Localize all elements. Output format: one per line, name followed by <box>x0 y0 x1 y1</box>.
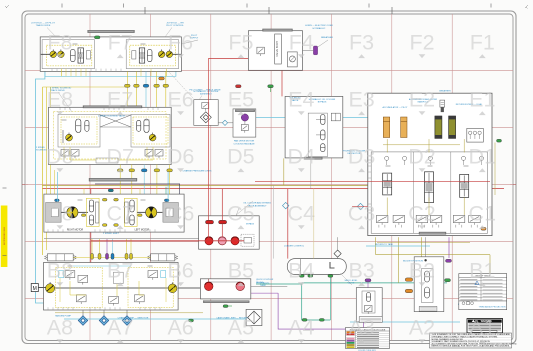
svg-text:HYDRAULIC: HYDRAULIC <box>313 27 326 30</box>
svg-text:A6: A6 <box>167 316 193 340</box>
spool left <box>78 48 83 63</box>
control spool section <box>425 172 434 203</box>
cartridge 1 <box>321 115 325 125</box>
right gearbox <box>46 203 62 223</box>
return hose red horizontal <box>42 188 504 190</box>
svg-text:CHARGE PRESSURE LINES: CHARGE PRESSURE LINES <box>183 170 212 173</box>
port ticks travel block <box>59 107 61 110</box>
filter element 1 <box>435 116 442 138</box>
fold marks <box>5 5 9 8</box>
svg-text:C1: C1 <box>469 202 496 226</box>
pilot red wire horizontal <box>209 57 283 59</box>
suction strainers <box>82 310 84 317</box>
svg-text:C4: C4 <box>288 202 316 226</box>
svg-text:LEFT MOTOR: LEFT MOTOR <box>135 229 150 231</box>
svg-text:D8: D8 <box>46 145 74 169</box>
svg-text:THIRD ANGLE PROJECTION: THIRD ANGLE PROJECTION <box>479 306 506 309</box>
rotated tag bar <box>275 34 282 64</box>
svg-text:E3: E3 <box>348 88 374 112</box>
svg-text:A1: A1 <box>469 316 495 340</box>
left control spool (top) <box>47 254 73 261</box>
M electric motor box <box>31 284 38 292</box>
pilot pump PR2 <box>166 51 173 58</box>
svg-text:C5: C5 <box>227 202 255 226</box>
svg-text:E4: E4 <box>288 88 314 112</box>
right side drain <box>494 143 496 196</box>
pilot pump PL1 <box>50 51 57 58</box>
main pump P2 <box>168 284 177 293</box>
gear pump 1 <box>204 282 213 291</box>
gerotor pump purple <box>241 114 248 121</box>
pilot pressure red riser (over blocks) <box>208 58 210 240</box>
cooler supply pills (over wires) <box>206 220 214 223</box>
control spool section <box>383 173 392 195</box>
svg-text:D2: D2 <box>408 145 435 169</box>
green pills A4 <box>302 319 307 322</box>
port ticks pump block <box>47 307 49 310</box>
svg-text:D5: D5 <box>227 145 255 169</box>
svg-text:E6: E6 <box>167 88 193 112</box>
svg-text:B2: B2 <box>409 259 435 283</box>
interior pilot lines <box>70 147 96 160</box>
cartridge 2 <box>321 130 325 140</box>
svg-text:C7: C7 <box>106 202 133 226</box>
green port pill <box>268 85 274 88</box>
svg-text:F7: F7 <box>108 31 133 55</box>
svg-text:B1: B1 <box>469 259 495 283</box>
cyan case drain to manifold <box>250 117 368 119</box>
svg-text:D1: D1 <box>469 145 496 169</box>
short stubs under F-block <box>65 69 67 77</box>
revision flag strip <box>1 206 8 268</box>
hose color legend <box>346 328 390 349</box>
left margin cyan wire <box>36 71 65 303</box>
radiator fan motor 2 <box>218 237 226 245</box>
pilot pump PL2 <box>58 51 65 58</box>
orange port pill <box>159 77 165 80</box>
right joystick section <box>126 40 178 69</box>
svg-text:F6: F6 <box>168 31 193 55</box>
tandem pump block <box>44 263 179 311</box>
left motor cylinder group <box>124 198 137 226</box>
purple muffler <box>313 46 317 55</box>
cyan drops into motors <box>56 172 58 202</box>
port ticks C-block <box>47 229 49 232</box>
purple pilot lines <box>278 293 363 329</box>
breather top <box>440 100 445 107</box>
svg-text:A8: A8 <box>47 316 73 340</box>
cyan check diamond left of manifold <box>357 203 363 209</box>
svg-text:A3: A3 <box>348 316 374 340</box>
brake valves below <box>61 150 69 157</box>
yellow net mid-left <box>83 189 85 195</box>
svg-text:TANK: TANK <box>260 284 266 287</box>
right drive motor <box>67 207 78 218</box>
svg-text:F5: F5 <box>228 31 253 55</box>
svg-text:RIGHT MOTOR: RIGHT MOTOR <box>67 229 84 231</box>
cyan labels right <box>366 245 430 247</box>
tank feed verticals <box>313 189 315 259</box>
right travel motor section <box>58 114 100 147</box>
cartridge 3 <box>321 144 325 152</box>
triple gauge block <box>467 128 484 142</box>
port ticks manifold left <box>368 159 371 161</box>
two speed supply dark line <box>95 184 180 194</box>
pilot port pills row1 <box>125 84 131 87</box>
svg-text:ASSEMBLY: ASSEMBLY <box>200 93 212 96</box>
top pills pump block <box>91 253 94 259</box>
svg-text:B5: B5 <box>228 259 254 283</box>
drawing zone grid <box>89 14 91 341</box>
control spool section <box>460 174 469 197</box>
loader signal red line <box>255 180 490 182</box>
svg-text:B3: B3 <box>348 259 374 283</box>
cooler supply pills <box>206 220 214 223</box>
svg-text:D6: D6 <box>167 145 195 169</box>
svg-text:C2: C2 <box>408 202 435 226</box>
shuttle capsule <box>71 49 76 61</box>
svg-text:RETURN TO TANK: RETURN TO TANK <box>375 243 394 246</box>
spool right <box>139 48 144 63</box>
left pump section dashed <box>55 267 102 307</box>
svg-text:LOADER CONTROL: LOADER CONTROL <box>284 244 305 247</box>
svg-text:E8: E8 <box>47 88 73 112</box>
svg-text:2 SPEED SHIFT: 2 SPEED SHIFT <box>103 233 120 235</box>
right pump section dashed <box>128 267 173 307</box>
main pump P1 <box>46 284 55 293</box>
radiator fan motor 1 <box>205 237 213 245</box>
svg-text:HYDRAULIC OIL FILTER: HYDRAULIC OIL FILTER <box>194 90 219 93</box>
pump to gear pump shaft <box>178 287 200 289</box>
grid zone labels <box>46 31 496 340</box>
left travel motor section <box>131 114 170 147</box>
accumulator 2 <box>401 117 407 138</box>
relief valve <box>257 47 265 54</box>
B5 to tank link <box>251 285 287 287</box>
svg-text:B6: B6 <box>167 259 193 283</box>
tiny gray component tags <box>73 43 78 45</box>
port ticks F-block <box>41 53 50 55</box>
servo valves <box>65 271 75 278</box>
filter element 2 <box>449 116 456 138</box>
red riser to cooler valve <box>221 189 223 237</box>
svg-text:E7: E7 <box>107 88 133 112</box>
svg-text:C3: C3 <box>348 202 376 226</box>
radiator fan motor 3 <box>231 237 239 245</box>
manifold to B2 drop <box>425 237 427 257</box>
svg-text:D4: D4 <box>288 145 316 169</box>
svg-text:TRACK DRIVE: TRACK DRIVE <box>36 24 51 27</box>
svg-text:BREATHER: BREATHER <box>321 36 333 39</box>
crossover lines <box>100 115 131 127</box>
supply hose olive horizontal <box>42 184 492 186</box>
solenoid sub-block <box>288 52 298 67</box>
drive motors block <box>44 194 184 232</box>
charge pump block <box>233 109 256 137</box>
specification table <box>459 274 507 310</box>
svg-text:REFER TO SERVICE MANUAL FOR TE: REFER TO SERVICE MANUAL FOR TEST PORT LO… <box>432 345 511 348</box>
margin fold marks <box>61 4 63 8</box>
pilot pump PR1 <box>158 51 165 58</box>
green pill manifold right <box>497 139 502 142</box>
svg-text:C6: C6 <box>167 202 195 226</box>
gear pump block <box>200 279 250 299</box>
travel motor R <box>76 119 81 133</box>
pilot port pills row2 <box>119 165 121 195</box>
svg-text:D7: D7 <box>106 145 133 169</box>
B2 port pills <box>405 278 413 281</box>
cyan line under F-block <box>45 69 176 77</box>
svg-text:ACCUMULATOR — PILOT: ACCUMULATOR — PILOT <box>382 106 408 109</box>
tank port pills <box>299 275 304 278</box>
right control spool (top) <box>151 254 175 261</box>
cooler feed red manifold line <box>91 240 244 242</box>
right motor cylinder group <box>86 198 99 226</box>
svg-text:VALVE BODY: VALVE BODY <box>275 41 279 57</box>
pilot drops <box>126 71 128 107</box>
svg-text:B7: B7 <box>107 259 133 283</box>
red riser left <box>90 189 92 296</box>
red port pill <box>236 85 242 88</box>
svg-text:HYDRAULIC: HYDRAULIC <box>257 281 270 284</box>
accumulator 1 <box>383 117 389 138</box>
general notes block <box>430 333 512 348</box>
drive shaft <box>55 287 168 289</box>
hydraulic reservoir <box>287 259 346 275</box>
left gearbox <box>163 203 179 223</box>
teal tank return <box>256 284 330 320</box>
cooler line horizontal <box>44 237 209 239</box>
ride control valve <box>356 288 382 322</box>
pilot valve block F8-F7 <box>40 37 181 72</box>
svg-text:F8: F8 <box>47 31 72 55</box>
svg-text:E5: E5 <box>228 88 254 112</box>
svg-text:MOTOR REV 1101: MOTOR REV 1101 <box>4 226 6 244</box>
gear pump 2 <box>236 282 245 291</box>
fan control valve block <box>285 96 343 157</box>
pilot bundle verticals left <box>50 87 52 194</box>
accessory valve block F5-F4 <box>248 31 302 71</box>
travel motor L <box>144 119 149 133</box>
svg-text:C8: C8 <box>46 202 74 226</box>
teal drop <box>165 187 167 194</box>
svg-text:F1: F1 <box>470 31 495 55</box>
svg-text:F4: F4 <box>289 31 314 55</box>
check valve diamond <box>222 120 227 125</box>
manifold inner sub-block <box>371 152 487 233</box>
red stub through manifold check diamond <box>352 206 368 208</box>
svg-text:BYPASS: BYPASS <box>318 101 327 104</box>
port relief valves <box>376 215 388 222</box>
svg-text:B4: B4 <box>288 259 314 283</box>
svg-text:A5: A5 <box>228 316 254 340</box>
C-block upper title bar <box>89 178 137 181</box>
svg-text:PILOT CONTROL: PILOT CONTROL <box>166 25 184 27</box>
filler breather diamond <box>334 250 341 257</box>
travel motors block <box>49 107 172 164</box>
olive manifold feeders <box>283 158 285 185</box>
table icons <box>462 302 465 305</box>
manifold internal risers <box>386 139 388 152</box>
cyan return line bottom <box>64 318 246 320</box>
svg-text:F2: F2 <box>409 31 434 55</box>
charge lines to pump pills <box>91 239 93 254</box>
loader control manifold <box>368 93 492 235</box>
svg-text:E2: E2 <box>409 88 435 112</box>
svg-text:F3: F3 <box>349 31 374 55</box>
svg-text:A7: A7 <box>107 316 133 340</box>
orange pill manifold <box>481 227 486 230</box>
center port pills <box>102 198 107 201</box>
warning label <box>467 319 503 333</box>
oil filter assembly <box>194 100 218 126</box>
svg-text:A2: A2 <box>409 316 435 340</box>
green port pill <box>94 36 100 39</box>
oil cooler core <box>246 309 262 325</box>
red drop to tank <box>287 189 289 259</box>
port ticks F-block bottom <box>51 69 53 72</box>
svg-text:M: M <box>33 286 37 292</box>
cyan check diamond mid <box>283 202 289 208</box>
svg-text:E1: E1 <box>469 88 495 112</box>
svg-text:BREATHER: BREATHER <box>439 89 451 92</box>
pump interior pilot wires <box>70 281 86 295</box>
fan/cooler valve block <box>199 216 260 249</box>
filter outlet rail <box>383 144 460 146</box>
leader lines <box>47 28 56 38</box>
left drive motor <box>146 207 157 218</box>
svg-text:FAN DRIVE MOTOR: FAN DRIVE MOTOR <box>234 140 255 143</box>
green drain lines <box>270 88 272 93</box>
cyan servo boxes <box>59 271 64 278</box>
hand control valve <box>414 257 444 312</box>
left joystick section <box>42 40 94 69</box>
svg-text:D3: D3 <box>348 145 376 169</box>
shuttle capsule R <box>147 49 152 61</box>
svg-text:A4: A4 <box>288 316 314 340</box>
svg-text:B8: B8 <box>47 259 73 283</box>
left margin yellow wires <box>42 87 44 255</box>
